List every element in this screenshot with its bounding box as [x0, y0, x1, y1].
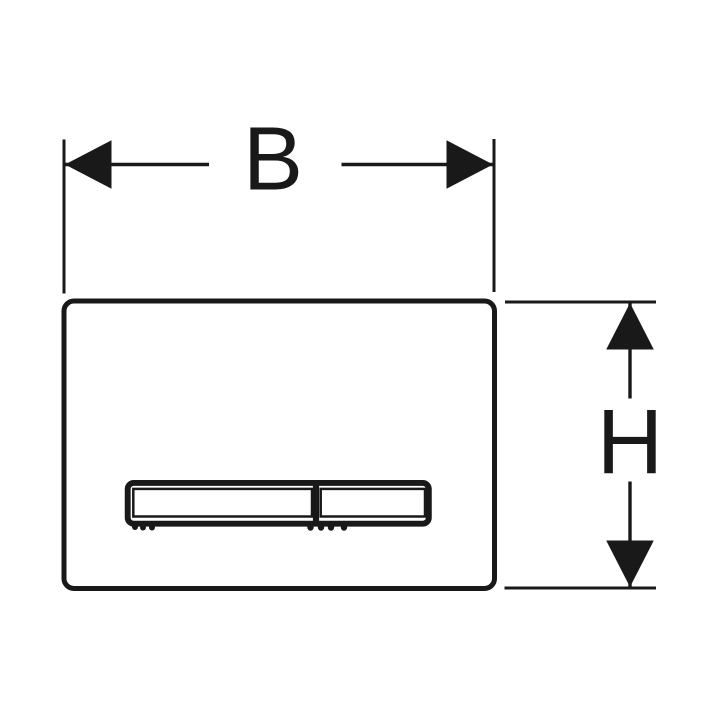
button inner bezel left: [133, 489, 312, 517]
svg-text:B: B: [243, 109, 303, 209]
clip bump left 1: [132, 524, 138, 530]
clip bump left 3: [149, 525, 155, 531]
extension line bottom (H): [505, 587, 657, 590]
button inner bezel right: [321, 489, 425, 517]
clip bump right 3: [328, 524, 334, 530]
arrowhead right (B): [447, 140, 494, 188]
clip bump right 1: [307, 524, 313, 530]
arrowhead left (B): [65, 140, 112, 188]
extension line right (B): [493, 139, 496, 292]
svg-text:H: H: [597, 392, 663, 494]
arrowhead down (H): [606, 541, 654, 588]
extension line left (B): [63, 140, 66, 294]
extension line top (H): [505, 301, 656, 304]
dimension line B left segment: [65, 163, 209, 166]
clip bump right 2: [318, 524, 324, 530]
dimension line H bottom segment: [628, 482, 631, 587]
dimension line H top segment: [628, 304, 631, 399]
clip bump left 2: [140, 525, 146, 531]
button divider: [313, 480, 319, 527]
plate outline: [64, 301, 495, 589]
dimension line B right segment: [342, 163, 493, 166]
arrowhead up (H): [606, 303, 654, 350]
clip bump right 4: [341, 524, 347, 530]
button outer frame: [128, 483, 429, 524]
